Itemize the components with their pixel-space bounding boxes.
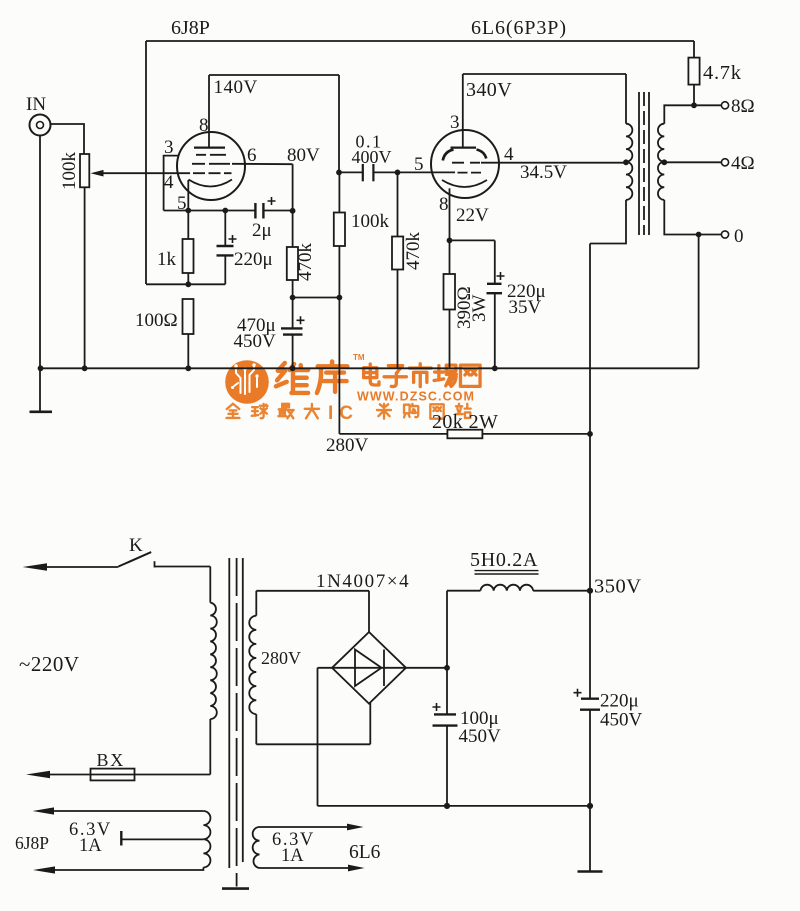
wire 8 ohm tap	[664, 102, 721, 123]
heater winding 6.3V for 6L6	[253, 827, 260, 868]
wire 0 tap	[664, 200, 721, 238]
V1 grid dashes row 1	[196, 154, 226, 156]
svg-text:4Ω: 4Ω	[731, 153, 755, 174]
mains arrow top	[23, 563, 119, 570]
svg-text:450V: 450V	[600, 710, 643, 731]
svg-text:BX: BX	[97, 750, 126, 770]
resistor 390R 3W	[444, 240, 491, 368]
svg-text:IN: IN	[26, 94, 46, 115]
wire 280V feed down	[338, 298, 340, 434]
resistor 470k grid leak (R5)	[392, 172, 424, 368]
capacitor 220u 450V main filter	[574, 689, 643, 806]
svg-text:400V: 400V	[352, 147, 392, 167]
watermark slogan row	[227, 404, 320, 419]
watermark char 市	[409, 364, 431, 387]
wire 280V to 20k	[339, 433, 447, 435]
V1 grid dashes row 2 and pin 6 lead	[192, 145, 293, 166]
tube V1 6J8P envelope	[177, 132, 245, 200]
node 280V rail line	[290, 295, 343, 301]
V2 control grid dashes and pin 5 wire	[398, 154, 482, 175]
capacitor 220u 35V cathode bypass	[487, 240, 546, 368]
wire B+ rail vertical	[589, 244, 591, 699]
node 350V	[587, 576, 642, 598]
svg-text:IC: IC	[328, 403, 359, 424]
svg-text:0: 0	[734, 226, 744, 247]
svg-text:140V: 140V	[214, 77, 258, 98]
V2 screen dashes and pin 4 lead	[452, 144, 626, 165]
svg-text:3: 3	[164, 137, 174, 158]
watermark char 网	[460, 365, 480, 386]
logo disc	[225, 360, 269, 404]
mains arrow bottom	[26, 771, 50, 778]
resistor 100k screen feed	[334, 172, 390, 297]
wire 340V plate to transformer	[463, 74, 626, 124]
svg-text:100Ω: 100Ω	[135, 310, 178, 331]
svg-text:34.5V: 34.5V	[520, 162, 567, 183]
svg-text:100k: 100k	[351, 211, 390, 232]
svg-text:3: 3	[450, 112, 460, 133]
svg-text:6J8P: 6J8P	[15, 833, 49, 853]
watermark char 维	[276, 363, 308, 393]
wire bridge minus down	[317, 668, 319, 806]
label 280V node	[326, 435, 369, 456]
choke 5H 0.2A	[447, 549, 590, 591]
heater 6J8P center tap	[121, 831, 203, 846]
svg-text:~220V: ~220V	[19, 652, 80, 676]
svg-text:WWW.DZSC.COM: WWW.DZSC.COM	[357, 390, 475, 404]
transformer T1 primary winding	[210, 567, 217, 775]
output transformer T2 primary winding	[623, 124, 632, 200]
svg-text:TM: TM	[353, 353, 365, 362]
label 340V	[466, 79, 512, 101]
wire 4 ohm tap	[664, 161, 721, 163]
T2 core laminations	[639, 92, 649, 235]
capacitor 220u cathode bypass	[217, 211, 273, 285]
svg-text:20k 2W: 20k 2W	[432, 411, 498, 433]
svg-text:8Ω: 8Ω	[731, 96, 755, 117]
fuse BX	[48, 750, 210, 780]
watermark logo group	[225, 353, 480, 424]
label 1N4007x4	[316, 571, 410, 592]
resistor 4.7k feedback	[688, 41, 741, 105]
svg-text:220μ: 220μ	[234, 249, 273, 270]
resistor 470k plate-side (R3)	[287, 243, 316, 298]
label 80V	[287, 145, 320, 166]
label 6L6(6P3P)	[471, 17, 567, 39]
node cathode junction	[447, 238, 495, 244]
svg-text:35V: 35V	[509, 297, 542, 318]
wire jack down to ground bus	[39, 136, 41, 369]
svg-text:6J8P: 6J8P	[171, 17, 210, 39]
wire pot bottom to ground bus	[84, 187, 86, 368]
svg-text:6L6: 6L6	[349, 842, 381, 863]
label 34.5V	[520, 162, 567, 183]
wire 140V plate supply	[209, 75, 339, 172]
svg-text:450V: 450V	[234, 331, 277, 352]
watermark char 场	[434, 365, 456, 386]
label ~220V	[19, 652, 80, 676]
wire screen 80V down	[292, 164, 294, 247]
svg-text:5H0.2A: 5H0.2A	[470, 549, 538, 571]
capacitor 2u	[252, 197, 296, 241]
svg-text:4: 4	[504, 144, 514, 165]
V1 grid dashes row 3 (pin 4 control grid)	[164, 172, 232, 193]
wire 0 tap to ground bus	[698, 235, 700, 369]
resistor 100R	[135, 299, 194, 368]
svg-text:100k: 100k	[59, 152, 80, 191]
terminal 4 ohm	[721, 153, 754, 174]
bridge rectifier 1N4007 x4	[318, 632, 448, 704]
svg-text:280V: 280V	[326, 435, 369, 456]
ground bus wire	[38, 365, 699, 371]
label K	[129, 535, 143, 556]
heater winding 6.3V for 6J8P	[203, 811, 210, 867]
T2 secondary winding	[658, 124, 667, 200]
wiper arrow of potentiometer	[91, 170, 191, 177]
capacitor 100u 450V	[433, 703, 502, 806]
svg-text:6: 6	[247, 145, 257, 166]
svg-text:5: 5	[414, 154, 424, 175]
svg-text:220μ: 220μ	[600, 691, 639, 712]
svg-text:3W: 3W	[469, 295, 490, 323]
svg-text:8: 8	[199, 115, 209, 136]
tube V2 6L6 envelope	[431, 130, 499, 198]
node line cathode (pin5)	[164, 208, 256, 214]
svg-text:6L6(6P3P): 6L6(6P3P)	[471, 17, 567, 39]
svg-text:K: K	[129, 535, 143, 556]
potentiometer 100k	[59, 152, 89, 191]
capacitor 470u 450V	[234, 298, 305, 369]
switch K blade	[118, 552, 210, 567]
V2 plate bar and pin 3 lead	[450, 74, 476, 148]
heater 6J8P top lead arrow	[33, 807, 204, 814]
input jack IN	[26, 94, 51, 136]
V2 cathode arc and pin 8 lead	[439, 180, 487, 240]
wire top rail	[146, 41, 694, 284]
wire jack to pot	[51, 124, 85, 154]
svg-text:470k: 470k	[403, 232, 424, 271]
terminal 0	[721, 226, 743, 247]
svg-text:1N4007×4: 1N4007×4	[316, 571, 410, 592]
V2 beam plates	[443, 150, 486, 161]
T1 core laminations	[229, 558, 243, 887]
watermark char 电	[364, 364, 379, 385]
wire AC1 to bridge	[256, 591, 369, 632]
svg-text:1A: 1A	[281, 846, 304, 866]
terminal 8 ohm	[721, 96, 754, 117]
wire AC2 to bridge	[256, 703, 370, 745]
watermark char 子	[384, 366, 406, 387]
wire plus rail vertical	[446, 591, 448, 714]
node bridge plus	[444, 665, 450, 671]
V1 pin 3 stub and left box wire	[164, 137, 179, 211]
svg-text:280V: 280V	[261, 648, 301, 668]
label 140V	[214, 77, 258, 98]
core ground bar	[222, 887, 249, 890]
resistor 1k	[157, 211, 194, 285]
heater 6J8P bottom lead arrow	[33, 866, 203, 873]
watermark char 库	[317, 361, 347, 392]
svg-text:1A: 1A	[79, 836, 102, 856]
svg-text:340V: 340V	[466, 79, 512, 101]
V1 cathode arc and lead pin 5	[177, 180, 232, 215]
svg-text:4: 4	[164, 172, 174, 193]
svg-text:80V: 80V	[287, 145, 320, 166]
T2 primary bottom lead to B+	[590, 200, 626, 244]
ground symbol left	[30, 368, 53, 412]
svg-text:450V: 450V	[459, 726, 502, 747]
svg-text:2μ: 2μ	[252, 220, 272, 241]
label 22V	[456, 205, 489, 226]
wire cathode network bottom	[146, 281, 225, 287]
svg-text:8: 8	[439, 194, 449, 215]
coupling capacitor 0.1 400V	[336, 132, 400, 182]
heater 6L6 bottom lead arrow	[260, 865, 365, 872]
V1 plate bar and pin 8 lead	[194, 75, 225, 148]
svg-text:4.7k: 4.7k	[703, 62, 742, 84]
ground symbol right	[578, 806, 603, 872]
svg-text:1k: 1k	[157, 249, 177, 270]
wire negative bus bottom	[318, 803, 594, 809]
label 6J8P	[171, 17, 210, 39]
labels 6.3V 1A 6L6	[272, 830, 381, 866]
heater 6L6 top lead arrow	[260, 824, 364, 831]
svg-text:350V: 350V	[594, 576, 642, 598]
svg-text:470k: 470k	[295, 243, 316, 282]
labels 6.3V 1A 6J8P	[15, 820, 112, 856]
T1 secondary 280V winding	[249, 591, 301, 745]
resistor 20k 2W	[432, 411, 593, 438]
svg-text:22V: 22V	[456, 205, 489, 226]
